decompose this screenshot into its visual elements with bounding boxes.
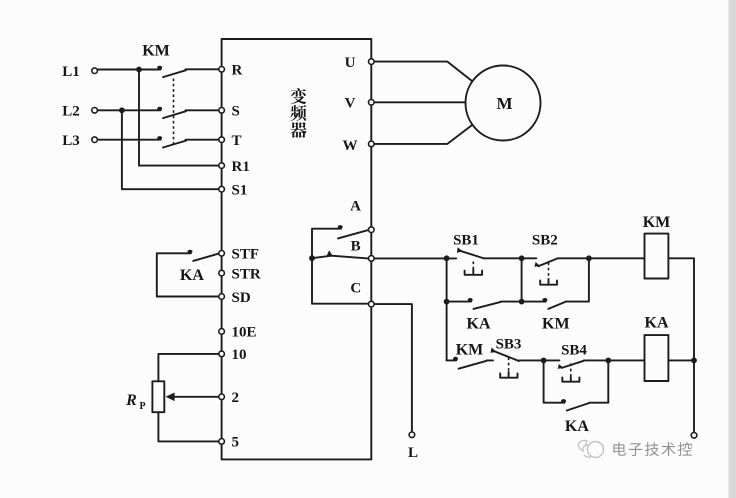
svg-text:2: 2 bbox=[232, 390, 240, 406]
svg-text:STR: STR bbox=[232, 266, 261, 282]
svg-text:KA: KA bbox=[645, 314, 669, 331]
svg-text:L1: L1 bbox=[62, 64, 80, 80]
svg-text:T: T bbox=[232, 133, 242, 149]
svg-text:R: R bbox=[125, 392, 137, 409]
svg-text:W: W bbox=[343, 138, 358, 154]
svg-text:KA: KA bbox=[467, 315, 491, 332]
svg-text:SB1: SB1 bbox=[453, 232, 479, 248]
svg-text:SB4: SB4 bbox=[561, 342, 587, 358]
svg-text:R1: R1 bbox=[232, 159, 250, 175]
svg-text:P: P bbox=[139, 401, 145, 412]
svg-text:KM: KM bbox=[643, 214, 671, 231]
svg-text:KA: KA bbox=[565, 418, 589, 435]
svg-text:A: A bbox=[350, 198, 361, 214]
svg-text:S1: S1 bbox=[232, 183, 248, 199]
svg-text:C: C bbox=[350, 281, 361, 297]
svg-text:SB2: SB2 bbox=[532, 233, 558, 249]
svg-text:SB3: SB3 bbox=[496, 336, 522, 352]
svg-text:U: U bbox=[345, 55, 356, 71]
svg-text:B: B bbox=[351, 239, 361, 255]
svg-text:KA: KA bbox=[180, 267, 204, 284]
svg-text:S: S bbox=[232, 104, 240, 120]
svg-text:10E: 10E bbox=[232, 325, 257, 341]
svg-text:M: M bbox=[496, 94, 512, 113]
svg-text:SD: SD bbox=[232, 290, 251, 306]
svg-text:KM: KM bbox=[142, 43, 170, 60]
svg-text:5: 5 bbox=[232, 435, 240, 451]
svg-text:V: V bbox=[345, 95, 356, 111]
svg-text:10: 10 bbox=[232, 347, 247, 363]
svg-text:KM: KM bbox=[456, 342, 484, 359]
svg-text:L3: L3 bbox=[62, 133, 80, 149]
svg-text:L2: L2 bbox=[62, 104, 80, 120]
svg-text:KM: KM bbox=[542, 316, 570, 333]
svg-text:R: R bbox=[232, 63, 243, 79]
svg-text:L: L bbox=[408, 445, 418, 461]
svg-text:STF: STF bbox=[232, 247, 260, 263]
